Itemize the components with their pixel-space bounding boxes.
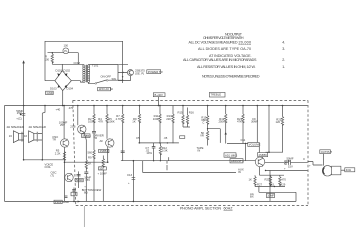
svg-text:30MF: 30MF — [251, 120, 258, 124]
svg-text:ALL DC VOLTAGES MEASURED: ALL DC VOLTAGES MEASURED — [189, 40, 238, 44]
svg-text:2SB54: 2SB54 — [100, 149, 109, 153]
svg-text:60HZ: 60HZ — [224, 207, 234, 211]
svg-text:R27: R27 — [257, 182, 263, 186]
svg-text:R25: R25 — [265, 178, 271, 182]
svg-text:1K: 1K — [132, 120, 136, 124]
svg-text:T101: T101 — [92, 63, 99, 67]
svg-text:B+40V: B+40V — [155, 93, 163, 97]
svg-text:COIL: COIL — [45, 165, 52, 169]
svg-text:50: 50 — [284, 162, 288, 166]
svg-text:C: C — [202, 121, 204, 125]
svg-text:10%: 10% — [146, 151, 152, 155]
svg-text:R29: R29 — [280, 182, 286, 186]
svg-text:16: 16 — [24, 134, 28, 138]
svg-text:SW: SW — [112, 77, 117, 81]
svg-text:1.: 1. — [282, 65, 285, 69]
svg-text:.05: .05 — [164, 136, 168, 140]
svg-text:25V: 25V — [17, 111, 22, 115]
svg-text:AF: AF — [100, 139, 104, 143]
svg-text:ON-OFF: ON-OFF — [101, 74, 112, 78]
svg-text:C5: C5 — [136, 136, 140, 140]
svg-text:2.: 2. — [282, 58, 285, 62]
svg-text:2SB: 2SB — [70, 124, 75, 128]
svg-text:ALL CAPACITOR VALUES ARE IN MI: ALL CAPACITOR VALUES ARE IN MICROFARADS — [183, 58, 257, 62]
svg-text:1K: 1K — [88, 162, 92, 166]
svg-text:C11: C11 — [241, 138, 246, 142]
svg-text:560: 560 — [88, 151, 93, 155]
svg-text:ALL RESISTOR VALUES IN OHM, 1/: ALL RESISTOR VALUES IN OHM, 1/2 W. — [197, 65, 256, 69]
svg-text:+ 10MF: + 10MF — [98, 171, 108, 175]
svg-text:4Ω SPEAKER: 4Ω SPEAKER — [29, 125, 46, 129]
svg-text:D101: D101 — [56, 69, 63, 73]
svg-text:100: 100 — [64, 44, 69, 48]
svg-text:470: 470 — [69, 106, 74, 110]
svg-text:PL: PL — [64, 49, 68, 53]
svg-text:3.: 3. — [282, 47, 285, 51]
svg-text:GND: GND — [63, 200, 69, 204]
svg-text:100K: 100K — [153, 117, 160, 121]
svg-text:100: 100 — [45, 57, 50, 61]
svg-text:100K: 100K — [108, 120, 115, 124]
svg-text:ALL DIODES ARE TYPE OA-70: ALL DIODES ARE TYPE OA-70 — [198, 47, 251, 51]
svg-text:22K: 22K — [166, 117, 171, 121]
svg-text:D104: D104 — [67, 87, 74, 91]
svg-text:D102: D102 — [64, 69, 71, 73]
svg-text:15V: 15V — [288, 164, 293, 168]
svg-text:8Ω: 8Ω — [84, 191, 88, 195]
svg-text:+(C): +(C) — [16, 117, 22, 121]
svg-text:47K: 47K — [98, 120, 103, 124]
svg-text:ADJ WKS: ADJ WKS — [225, 153, 237, 157]
svg-text:2SB56: 2SB56 — [259, 153, 268, 157]
svg-text:GND: GND — [47, 91, 53, 95]
svg-text:VR: VR — [200, 134, 204, 138]
svg-text:100: 100 — [99, 166, 104, 170]
svg-text:250K: 250K — [219, 120, 226, 124]
svg-text:(T): (T) — [51, 173, 55, 177]
svg-text:NOTES: UNLESS OTHERWISE SPECIF: NOTES: UNLESS OTHERWISE SPECIFIED — [202, 75, 260, 79]
svg-text:VOLUME: VOLUME — [249, 143, 261, 147]
svg-text:P101: P101 — [55, 200, 62, 204]
svg-text:BX: BX — [250, 194, 254, 198]
svg-text:47K: 47K — [237, 120, 242, 124]
svg-text:TREBLE: TREBLE — [210, 93, 221, 97]
svg-text:C13: C13 — [127, 173, 133, 177]
svg-text:10MF: 10MF — [267, 194, 274, 198]
svg-text:3.3K: 3.3K — [162, 149, 168, 153]
svg-text:4Ω SPEAKER: 4Ω SPEAKER — [7, 125, 24, 129]
svg-text:POWER TR: POWER TR — [148, 70, 163, 74]
svg-text:40Ω: 40Ω — [346, 168, 351, 172]
svg-text:100K: 100K — [88, 120, 95, 124]
svg-text:120: 120 — [276, 120, 281, 124]
svg-text:470: 470 — [281, 178, 286, 182]
svg-text:PHONO AMPL SECTION: PHONO AMPL SECTION — [180, 207, 221, 211]
svg-text:25V: 25V — [60, 123, 65, 127]
svg-text:50MF: 50MF — [76, 178, 83, 182]
svg-text:R9: R9 — [88, 156, 92, 160]
svg-text:20,000: 20,000 — [239, 40, 252, 44]
svg-text:16: 16 — [9, 134, 13, 138]
svg-text:COM: COM — [74, 61, 81, 65]
svg-text:IN: IN — [198, 149, 201, 153]
svg-text:OUTPUT: OUTPUT — [321, 150, 333, 154]
svg-text:IN: IN — [238, 170, 241, 174]
svg-text:C: C — [303, 157, 305, 161]
svg-text:4.: 4. — [282, 40, 285, 44]
svg-text:D103: D103 — [50, 87, 57, 91]
svg-text:(GE. P): (GE. P) — [135, 71, 144, 75]
svg-text:4.7K: 4.7K — [116, 117, 122, 121]
svg-text:115V.AC 60: 115V.AC 60 — [99, 87, 114, 91]
svg-text:R15: R15 — [178, 111, 184, 115]
svg-text:2.2K: 2.2K — [55, 151, 61, 155]
svg-text:TR: TR — [52, 137, 56, 141]
svg-text:2SB54: 2SB54 — [82, 134, 91, 138]
svg-text:ADJUST L: ADJUST L — [231, 159, 244, 163]
svg-text:+40: +40 — [56, 108, 61, 112]
svg-text:1K: 1K — [249, 178, 253, 182]
svg-text:R16: R16 — [189, 111, 195, 115]
